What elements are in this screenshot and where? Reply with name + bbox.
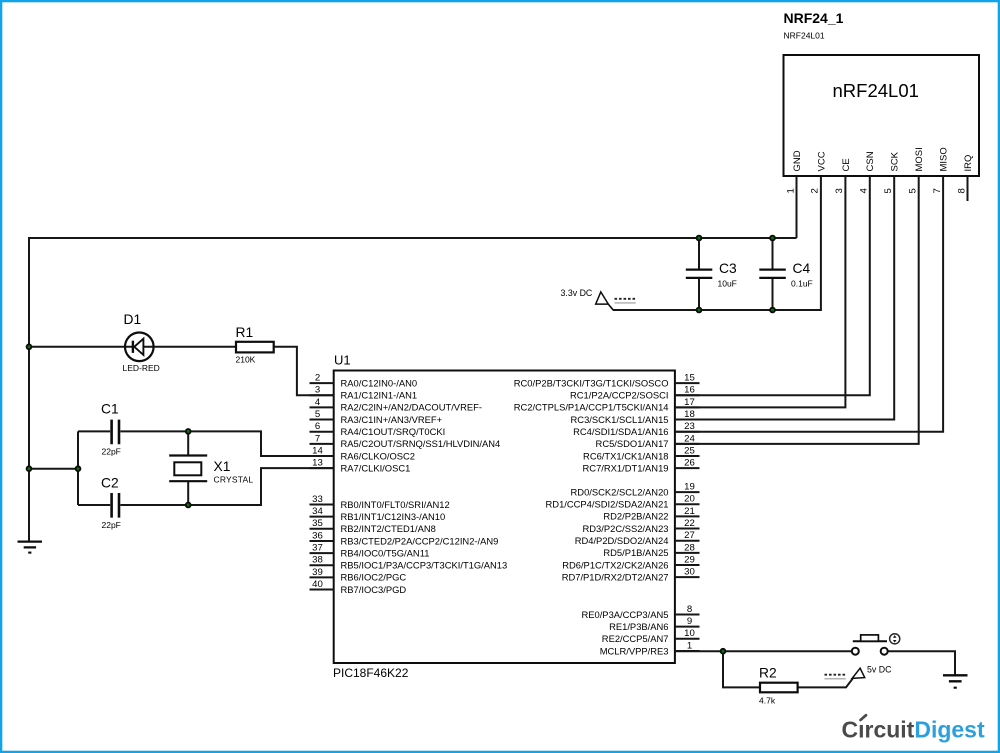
svg-text:15: 15 [684, 373, 695, 384]
svg-text:X1: X1 [214, 459, 231, 474]
svg-text:VCC: VCC [816, 151, 827, 171]
svg-text:1: 1 [785, 188, 796, 193]
wire: crystal X1 top lead [187, 431, 189, 455]
wire: D1 anode to left rail [29, 346, 133, 348]
svg-text:3.3v DC: 3.3v DC [561, 288, 593, 298]
svg-text:NRF24_1: NRF24_1 [784, 10, 844, 26]
junction node D1 branch [26, 344, 33, 351]
svg-text:PIC18F46K22: PIC18F46K22 [333, 666, 409, 680]
capacitor C2 22pF [101, 476, 121, 531]
svg-text:RB2/INT2/CTED1/AN8: RB2/INT2/CTED1/AN8 [341, 523, 436, 534]
svg-text:6: 6 [315, 421, 320, 432]
svg-text:24: 24 [684, 433, 695, 444]
wire: nRF24 pin1 GND drop [796, 176, 798, 238]
svg-text:RA4/C1OUT/SRQ/T0CKI: RA4/C1OUT/SRQ/T0CKI [341, 426, 446, 437]
svg-text:8: 8 [687, 604, 692, 615]
svg-text:5v DC: 5v DC [867, 665, 892, 675]
svg-text:RA0/C12IN0-/AN0: RA0/C12IN0-/AN0 [341, 377, 418, 388]
svg-text:C1: C1 [101, 402, 119, 417]
wire: nRF24 IRQ stub pin8 [967, 176, 969, 201]
svg-text:40: 40 [312, 579, 323, 590]
svg-text:CE: CE [841, 158, 852, 171]
crystal X1 [169, 456, 253, 485]
svg-text:22pF: 22pF [102, 447, 121, 457]
svg-text:RA7/CLKI/OSC1: RA7/CLKI/OSC1 [341, 462, 411, 473]
svg-text:18: 18 [684, 409, 695, 420]
wire: C3 top lead [698, 238, 700, 269]
svg-text:D1: D1 [124, 312, 142, 327]
svg-text:38: 38 [312, 555, 323, 566]
svg-text:RA3/C1IN+/AN3/VREF+: RA3/C1IN+/AN3/VREF+ [341, 414, 443, 425]
resistor R1 210K [236, 325, 274, 365]
svg-text:RB6/IOC2/PGC: RB6/IOC2/PGC [341, 572, 407, 583]
svg-text:7: 7 [315, 433, 320, 444]
junction node X1 bottom [185, 502, 192, 509]
svg-text:27: 27 [684, 530, 695, 541]
wire: nRF24 SCK to U1 RC3 pin18 [675, 176, 894, 420]
CircuitDigest logo [842, 715, 985, 742]
svg-text:RA1/C12IN1-/AN1: RA1/C12IN1-/AN1 [341, 390, 418, 401]
junction node OSC rail [26, 465, 33, 472]
U1 left pin stubs (ports RA and RB) [310, 383, 334, 589]
U1 left pin labels [341, 377, 508, 594]
wire: nRF24 MOSI to U1 RC5 pin24 [675, 176, 919, 444]
svg-text:37: 37 [312, 543, 323, 554]
svg-text:RB0/INT0/FLT0/SRI/AN12: RB0/INT0/FLT0/SRI/AN12 [341, 499, 450, 510]
svg-text:CırcuitDigest: CırcuitDigest [842, 717, 985, 743]
svg-text:10uF: 10uF [718, 279, 737, 289]
U1 right pin stubs (ports RC RD RE) [675, 383, 700, 651]
push button switch [852, 634, 900, 655]
wire: C3 bottom lead [698, 279, 700, 310]
power terminal 3.3v DC [561, 288, 636, 310]
wire: crystal X1 bottom lead [187, 481, 189, 505]
wire: nRF24 CSN to U1 RC1 pin16 [675, 176, 870, 395]
svg-text:C2: C2 [101, 476, 119, 491]
wire: left GND rail vertical [28, 237, 30, 542]
U1 right pin numbers [684, 373, 695, 652]
svg-text:RD5/P1B/AN25: RD5/P1B/AN25 [603, 547, 668, 558]
wire: crystal loop left vertical [77, 431, 79, 505]
ground symbol left [18, 542, 43, 553]
svg-text:MISO: MISO [938, 147, 949, 171]
svg-text:RA2/C2IN+/AN2/DACOUT/VREF-: RA2/C2IN+/AN2/DACOUT/VREF- [341, 402, 482, 413]
svg-text:0.1uF: 0.1uF [791, 279, 813, 289]
svg-text:IRQ: IRQ [963, 155, 974, 172]
svg-text:RC7/RX1/DT1/AN19: RC7/RX1/DT1/AN19 [583, 462, 669, 473]
svg-text:RD2/P2B/AN22: RD2/P2B/AN22 [603, 511, 668, 522]
junction node C4 bottom [769, 307, 776, 314]
resistor R2 4.7k [759, 666, 798, 706]
svg-text:4.7k: 4.7k [759, 696, 776, 706]
svg-text:22: 22 [684, 518, 695, 529]
wire: R2 right to 5v DC terminal [798, 679, 853, 688]
LED D1 LED-RED [123, 312, 160, 373]
capacitor C1 22pF [101, 402, 121, 457]
svg-text:19: 19 [684, 482, 695, 493]
junction node C4 top [769, 235, 776, 242]
svg-text:nRF24L01: nRF24L01 [833, 80, 919, 101]
power terminal 5v DC [825, 665, 893, 679]
svg-text:RC4/SDI1/SDA1/AN16: RC4/SDI1/SDA1/AN16 [573, 426, 668, 437]
svg-text:MOSI: MOSI [914, 147, 925, 171]
junction node C3 top [696, 235, 703, 242]
capacitor C4 0.1uF [759, 261, 812, 289]
svg-text:RD1/CCP4/SDI2/SDA2/AN21: RD1/CCP4/SDI2/SDA2/AN21 [546, 499, 669, 510]
svg-text:RD7/P1D/RX2/DT2/AN27: RD7/P1D/RX2/DT2/AN27 [562, 571, 669, 582]
capacitor C3 10uF [686, 261, 737, 289]
wire: D1 cathode to R1 left [143, 346, 236, 348]
junction node C3 bottom [696, 307, 703, 314]
wire: R1 right to U1 pin3 RA1 [274, 347, 334, 395]
svg-text:30: 30 [684, 567, 695, 578]
svg-text:RC1/P2A/CCP2/SOSCI: RC1/P2A/CCP2/SOSCI [570, 390, 668, 401]
U1 left pin numbers [312, 373, 323, 590]
svg-text:RC0/P2B/T3CKI/T3G/T1CKI/SOSCO: RC0/P2B/T3CKI/T3G/T1CKI/SOSCO [514, 377, 669, 388]
wire: U1 MCLR pin1 to push button [675, 650, 852, 652]
svg-text:29: 29 [684, 554, 695, 565]
svg-text:RB3/CTED2/P2A/CCP2/C12IN2-/AN9: RB3/CTED2/P2A/CCP2/C12IN2-/AN9 [341, 535, 499, 546]
wire: nRF24 MISO to U1 RC4 pin23 [675, 176, 943, 432]
svg-text:23: 23 [684, 421, 695, 432]
svg-text:RD4/P2D/SDO2/AN24: RD4/P2D/SDO2/AN24 [575, 535, 669, 546]
svg-text:1: 1 [687, 640, 692, 651]
svg-text:SCK: SCK [890, 151, 901, 171]
svg-text:17: 17 [684, 397, 695, 408]
svg-text:LED-RED: LED-RED [123, 363, 160, 373]
svg-text:25: 25 [684, 445, 695, 456]
svg-text:28: 28 [684, 542, 695, 553]
svg-text:33: 33 [312, 494, 323, 505]
svg-text:RE2/CCP5/AN7: RE2/CCP5/AN7 [602, 633, 669, 644]
svg-text:14: 14 [312, 445, 323, 456]
svg-text:210K: 210K [236, 355, 256, 365]
nRF24 pin names and numbers [785, 147, 974, 193]
svg-text:5: 5 [883, 188, 894, 193]
svg-text:5: 5 [907, 188, 918, 193]
svg-text:C3: C3 [719, 261, 737, 276]
svg-text:34: 34 [312, 506, 323, 517]
svg-text:RB4/IOC0/T5G/AN11: RB4/IOC0/T5G/AN11 [341, 547, 430, 558]
svg-text:9: 9 [687, 616, 692, 627]
svg-text:7: 7 [932, 188, 943, 193]
wire: C4 bottom lead [772, 279, 774, 310]
svg-text:RB7/IOC3/PGD: RB7/IOC3/PGD [341, 584, 407, 595]
svg-text:5: 5 [315, 409, 320, 420]
svg-text:4: 4 [315, 397, 321, 408]
svg-text:RA6/CLKO/OSC2: RA6/CLKO/OSC2 [341, 450, 416, 461]
svg-text:20: 20 [684, 494, 695, 505]
svg-text:RE0/P3A/CCP3/AN5: RE0/P3A/CCP3/AN5 [581, 609, 668, 620]
svg-text:16: 16 [684, 385, 695, 396]
svg-text:3: 3 [834, 188, 845, 193]
U1 right pin labels [514, 377, 669, 656]
svg-text:RC6/TX1/CK1/AN18: RC6/TX1/CK1/AN18 [583, 450, 668, 461]
svg-text:39: 39 [312, 567, 323, 578]
svg-text:U1: U1 [334, 353, 351, 368]
svg-text:GND: GND [792, 150, 803, 171]
wire: nRF24 CE to U1 RC2 pin17 [675, 176, 846, 407]
svg-text:RD6/P1C/TX2/CK2/AN26: RD6/P1C/TX2/CK2/AN26 [562, 559, 668, 570]
svg-text:2: 2 [810, 188, 821, 193]
ground symbol right [943, 675, 968, 687]
svg-text:35: 35 [312, 518, 323, 529]
svg-text:RC2/CTPLS/P1A/CCP1/T5CKI/AN14: RC2/CTPLS/P1A/CCP1/T5CKI/AN14 [514, 402, 669, 413]
svg-text:CRYSTAL: CRYSTAL [214, 475, 254, 485]
wire: left rail to crystal loop (node OSC) [29, 468, 78, 470]
svg-text:MCLR/VPP/RE3: MCLR/VPP/RE3 [600, 645, 669, 656]
svg-text:3: 3 [315, 385, 320, 396]
wire: crystal loop bottom (C2 to OSC1 pin13) [78, 468, 334, 505]
junction node X1 top [185, 428, 192, 435]
junction node MCLR [720, 648, 727, 655]
svg-text:R1: R1 [236, 325, 254, 340]
wire: push button to right ground [888, 651, 955, 675]
svg-text:22pF: 22pF [102, 520, 121, 530]
svg-text:RA5/C2OUT/SRNQ/SS1/HLVDIN/AN4: RA5/C2OUT/SRNQ/SS1/HLVDIN/AN4 [341, 438, 501, 449]
svg-text:RC3/SCK1/SCL1/AN15: RC3/SCK1/SCL1/AN15 [571, 414, 669, 425]
wire: MCLR node down to R2 [723, 651, 760, 687]
svg-text:36: 36 [312, 530, 323, 541]
svg-text:RB1/INT1/C12IN3-/AN10: RB1/INT1/C12IN3-/AN10 [341, 511, 446, 522]
svg-text:NRF24L01: NRF24L01 [784, 31, 825, 41]
svg-text:RC5/SDO1/AN17: RC5/SDO1/AN17 [596, 438, 669, 449]
wire: C4 top lead [772, 238, 774, 269]
svg-text:21: 21 [684, 506, 695, 517]
svg-text:8: 8 [956, 188, 967, 193]
svg-text:4: 4 [859, 188, 870, 194]
svg-text:RD3/P2C/SS2/AN23: RD3/P2C/SS2/AN23 [583, 523, 669, 534]
svg-text:RB5/IOC1/P3A/CCP3/T3CKI/T1G/AN: RB5/IOC1/P3A/CCP3/T3CKI/T1G/AN13 [341, 560, 508, 571]
svg-text:13: 13 [312, 458, 323, 469]
svg-text:R2: R2 [759, 666, 777, 681]
svg-text:10: 10 [684, 628, 695, 639]
wire: crystal loop top (C1 to OSC2 pin14) [78, 431, 334, 456]
svg-text:RE1/P3B/AN6: RE1/P3B/AN6 [609, 621, 668, 632]
IC U1 PIC18F46K22 body [333, 353, 675, 681]
wire: 3.3v DC rail to nRF24 pin2 VCC [613, 176, 821, 310]
svg-text:RD0/SCK2/SCL2/AN20: RD0/SCK2/SCL2/AN20 [571, 486, 669, 497]
junction node crystal loop [75, 465, 82, 472]
wire: GND top rail from left rail to nRF24 pin1 [29, 237, 797, 239]
svg-text:C4: C4 [793, 261, 811, 276]
svg-text:26: 26 [684, 458, 695, 469]
module NRF24_1 nRF24L01 body [784, 10, 980, 176]
svg-text:CSN: CSN [865, 151, 876, 171]
svg-text:2: 2 [315, 373, 320, 384]
